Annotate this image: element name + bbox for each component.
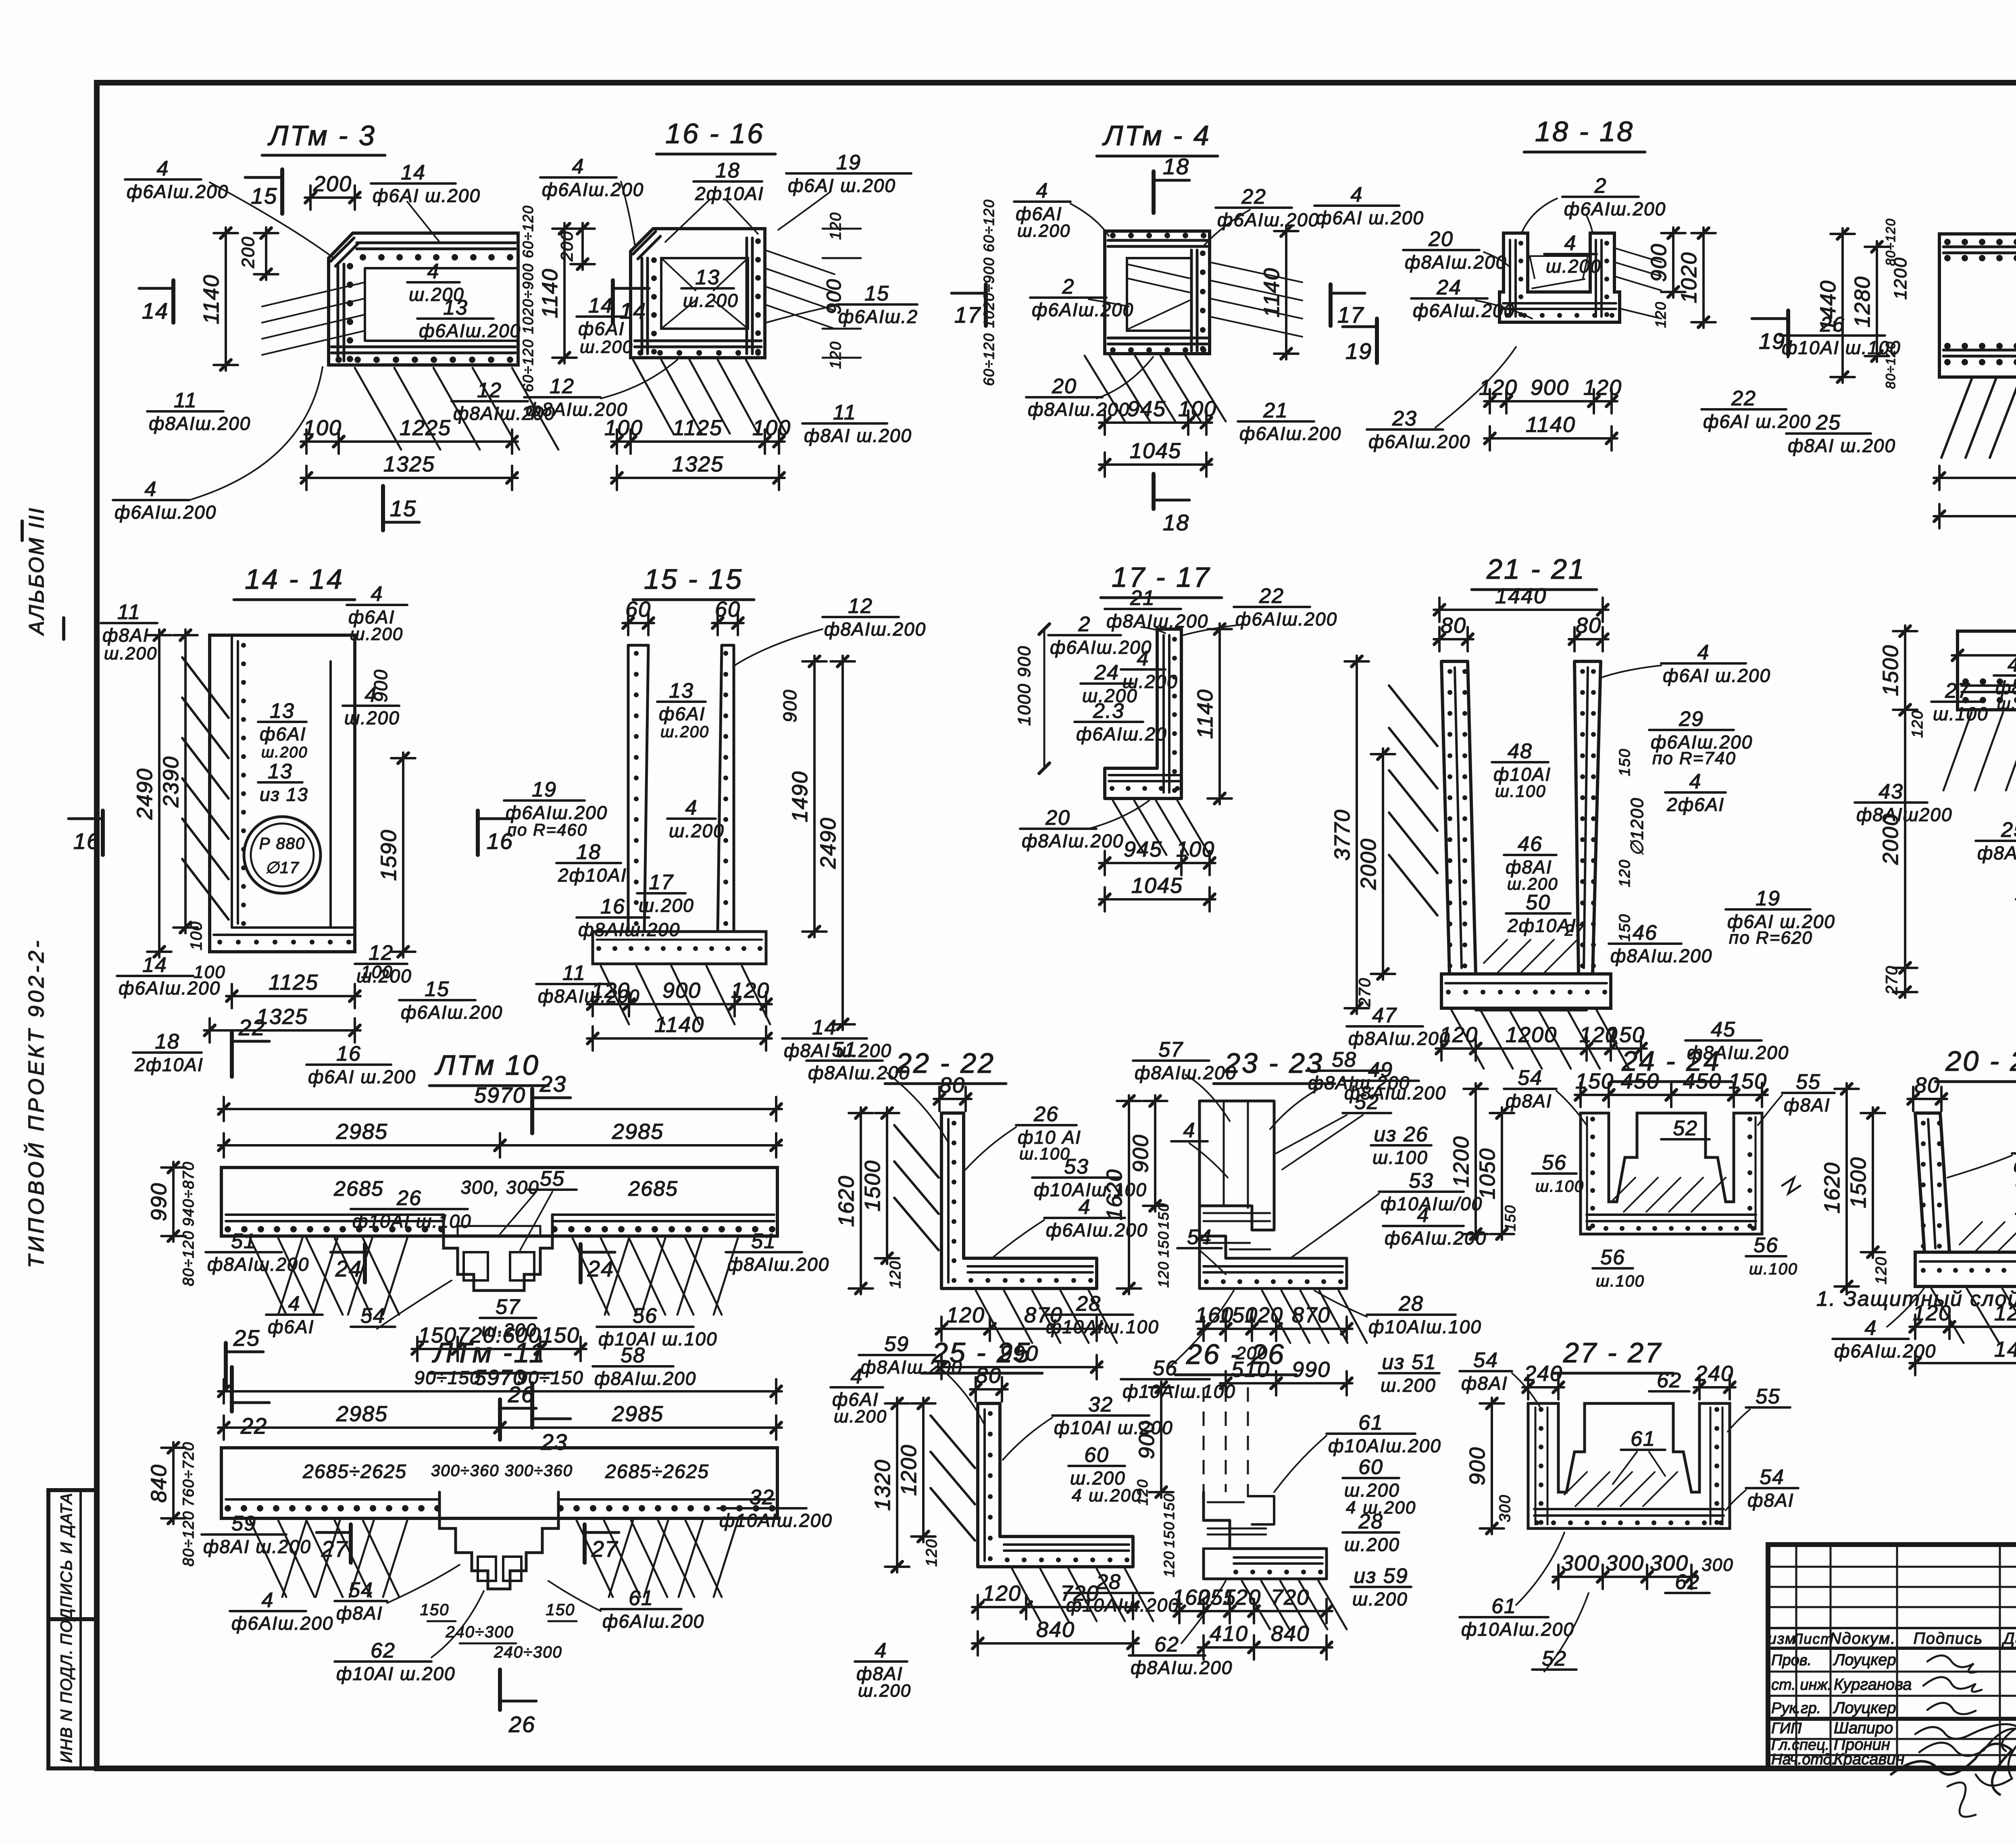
svg-text:900: 900: [1135, 1420, 1159, 1459]
section 16-16 leader 18 2ф10АI top: [694, 180, 762, 183]
section ЛТм-3 cut marker 15 top: [280, 169, 284, 214]
section ЛТм-4 cut marker 18 top: [1152, 171, 1156, 213]
section ЛТм-3 top wall rebar: [357, 242, 515, 244]
svg-text:4: 4: [572, 155, 585, 178]
section ЛТм-4 bottom rebar: [1108, 337, 1207, 340]
svg-text:18: 18: [715, 159, 740, 182]
section 26-26 leader из 59 ш.200 bottom right: [1351, 1586, 1411, 1588]
section 26-26 step rebar: [1208, 1501, 1244, 1503]
svg-text:57: 57: [1158, 1038, 1183, 1061]
svg-text:ш.200: ш.200: [683, 290, 739, 311]
section ЛТм-9 dim 5970: [1934, 515, 2016, 517]
section 23-23 hatch under slab: [1262, 1291, 1290, 1343]
svg-text:Р 880: Р 880: [259, 835, 306, 853]
svg-text:ф6АIш.200: ф6АIш.200: [1235, 609, 1337, 630]
svg-text:2ф10АI: 2ф10АI: [558, 865, 627, 886]
svg-text:16: 16: [600, 895, 625, 918]
svg-text:12: 12: [550, 375, 575, 398]
svg-text:12: 12: [369, 941, 394, 965]
section ЛТм 10 slab bottom rebar: [226, 1220, 444, 1222]
section 23-23 leader 53 ф10АIш.100 right: [1379, 1190, 1464, 1193]
svg-text:80: 80: [976, 1363, 1002, 1388]
section 14-14 leader 4 ф6АI top: [347, 604, 407, 606]
section 23-23 leader 4 ф6АIш.200 right: [1383, 1225, 1464, 1227]
svg-text:1590: 1590: [377, 829, 401, 881]
section 16-16 right pointer lines: [765, 250, 835, 274]
svg-text:ф8АI ш.200: ф8АI ш.200: [1788, 435, 1896, 456]
section 24-24 break mark right: [1782, 1178, 1800, 1194]
section 20-20 left wall tapered: [1915, 1113, 1949, 1252]
section ЛТм-11 hatch below right: [577, 1520, 613, 1597]
svg-text:1440: 1440: [1994, 1337, 2016, 1361]
svg-text:28: 28: [1076, 1292, 1101, 1316]
section 17-17 leader 2 ф6АIш.200 left: [1048, 634, 1121, 636]
svg-text:200: 200: [313, 172, 352, 196]
svg-text:13: 13: [669, 679, 694, 703]
section 24-24 leader 54 ф8АI top left: [1504, 1088, 1556, 1090]
svg-text:60: 60: [1084, 1443, 1109, 1467]
svg-text:1000 900: 1000 900: [1014, 645, 1034, 726]
svg-text:300, 300: 300, 300: [460, 1177, 539, 1198]
section 22-22 dims bottom: [936, 1328, 996, 1330]
svg-text:ф6АIш.200: ф6АIш.200: [1413, 300, 1515, 321]
svg-text:2390: 2390: [159, 756, 183, 808]
svg-text:ф8АIш.200: ф8АIш.200: [1610, 945, 1712, 966]
svg-text:1140: 1140: [1193, 689, 1217, 739]
svg-text:900: 900: [1129, 1134, 1153, 1173]
svg-text:16: 16: [73, 828, 100, 854]
svg-text:100: 100: [303, 416, 342, 440]
svg-text:900: 900: [662, 978, 701, 1003]
section 22-22 hatch left of wall: [894, 1125, 939, 1178]
section 23-23 upper wall block: [1200, 1101, 1274, 1230]
svg-text:15: 15: [251, 183, 277, 208]
section 25-25 dims bottom: [972, 1606, 1032, 1608]
svg-text:Шапиро: Шапиро: [1834, 1719, 1893, 1737]
section 18-18 concrete outline U channel: [1500, 233, 1620, 322]
section ЛТм-4 leader 21 ф6АIш.200 bottom right: [1238, 420, 1314, 423]
section 21-21 leader 49 bottom left: [1343, 1080, 1419, 1082]
svg-text:60÷120 1020÷900 60÷120: 60÷120 1020÷900 60÷120: [520, 205, 536, 392]
svg-text:16: 16: [336, 1042, 361, 1065]
svg-text:22: 22: [1731, 387, 1756, 410]
svg-text:52: 52: [1354, 1090, 1379, 1114]
section 14-14 leader 4 ш.200 right: [343, 705, 399, 707]
title block left grid columns: [1768, 1566, 2016, 1568]
svg-text:ш.100: ш.100: [1019, 1144, 1070, 1163]
section 14-14 leader 18 2ф10АI bottom: [133, 1051, 202, 1054]
svg-text:80: 80: [1441, 613, 1466, 638]
svg-text:900: 900: [1465, 1447, 1489, 1485]
section 21-21 bottom hatch below slab: [1452, 1010, 1484, 1069]
svg-text:ш.200: ш.200: [350, 624, 403, 644]
svg-text:26: 26: [1820, 313, 1845, 336]
section 22-22 leader 51 ф8АIш.200 top left: [806, 1059, 883, 1062]
svg-text:54: 54: [1518, 1066, 1543, 1090]
svg-text:840: 840: [1036, 1618, 1075, 1642]
section ЛТм-3 dim 1325 bottom: [301, 477, 518, 479]
svg-text:ф6АI ш.200: ф6АI ш.200: [1316, 207, 1424, 228]
svg-text:43: 43: [1879, 780, 1904, 803]
svg-text:870: 870: [1292, 1303, 1331, 1327]
svg-text:22: 22: [238, 1015, 265, 1040]
svg-text:24: 24: [1094, 661, 1119, 684]
section 15-15 left wall: [628, 645, 648, 932]
section 20-20 leader 4 ф6АIш.200 bottom left: [1833, 1338, 1909, 1340]
svg-text:90÷150: 90÷150: [414, 1367, 481, 1388]
svg-text:ф8АIш.200: ф8АIш.200: [149, 413, 251, 434]
svg-text:410: 410: [1210, 1622, 1248, 1646]
svg-text:29: 29: [1679, 707, 1704, 731]
section 20-20 leader 26 ф10АI ш.100 center: [2012, 1152, 2016, 1155]
section 19-19 top slab outline: [1958, 631, 2016, 936]
section ЛТм-3 bottom wall rebar: [331, 346, 515, 348]
svg-text:60: 60: [625, 597, 651, 621]
section 15-15 dims bottom: [587, 1003, 635, 1005]
section 24-24 bottom rebar: [1587, 1213, 1756, 1216]
svg-text:18 - 18: 18 - 18: [1535, 116, 1634, 147]
section 15-15 hatch bottom: [601, 966, 629, 1024]
svg-text:ЛТм - 3: ЛТм - 3: [267, 120, 376, 151]
svg-text:150: 150: [420, 1601, 450, 1619]
section 22-22 leader 4 ф6АI bottom left: [831, 1386, 883, 1389]
svg-text:2685÷2625: 2685÷2625: [302, 1461, 407, 1482]
svg-text:120: 120: [1873, 1256, 1890, 1284]
section 25-25 hatch left of wall: [931, 1416, 975, 1468]
svg-text:120: 120: [1616, 859, 1633, 887]
svg-text:4: 4: [875, 1639, 887, 1662]
svg-text:Курганова: Курганова: [1834, 1676, 1912, 1693]
section 21-21 dims bottom: [1436, 1047, 1481, 1050]
svg-text:150: 150: [1616, 748, 1633, 776]
section 17-17 leader 24 ш.200 left: [1081, 682, 1133, 685]
section 24-24 wall rebar dots: [1590, 1117, 1595, 1122]
section 16-16 leader 15 right: [837, 303, 917, 306]
svg-text:4: 4: [262, 1589, 274, 1612]
svg-text:56: 56: [1600, 1246, 1625, 1269]
section ЛТм-3 dim 200 small top left: [265, 227, 267, 280]
svg-text:∅1200: ∅1200: [1627, 797, 1647, 856]
svg-text:ш.200: ш.200: [1123, 671, 1178, 692]
svg-text:4: 4: [1564, 231, 1577, 255]
section ЛТм-3 cut marker 14 left: [171, 280, 175, 323]
section ЛТм-11 cut marker 26 bottom: [498, 1670, 502, 1710]
svg-text:870: 870: [1024, 1303, 1063, 1327]
svg-text:120: 120: [827, 212, 844, 240]
svg-text:ш.200: ш.200: [344, 707, 400, 728]
section 15-15 leader 17 ш.200: [637, 892, 685, 894]
svg-text:120: 120: [983, 1581, 1021, 1605]
section 14-14 pipe circle: [244, 817, 321, 893]
svg-text:120: 120: [731, 978, 770, 1003]
svg-text:61: 61: [629, 1587, 654, 1610]
section ЛТм-4 leader 4 ф6АIш.200 far right: [1314, 204, 1399, 207]
svg-text:АЛЬБОМ III: АЛЬБОМ III: [25, 507, 48, 636]
svg-text:ф8АIш.200: ф8АIш.200: [1131, 1657, 1233, 1678]
section 16-16 concrete outline: [631, 229, 765, 358]
section ЛТм-3 leader 4 ф6АIш.200 bottom left: [113, 499, 189, 501]
svg-text:ф6АI ш.200: ф6АI ш.200: [1663, 665, 1771, 686]
svg-text:3770: 3770: [1330, 809, 1354, 861]
svg-text:из 51: из 51: [1382, 1351, 1436, 1374]
section 22-22 leader 4 ф6АIш.200 right: [1044, 1217, 1125, 1219]
svg-text:15: 15: [425, 978, 450, 1001]
section ЛТм-3 dim 1140 left: [225, 227, 227, 371]
svg-text:2ф10АI: 2ф10АI: [695, 183, 764, 204]
section ЛТм 10 hatch below right: [573, 1238, 609, 1315]
section 14-14 leader 15 ф6АIш.200 right: [399, 999, 475, 1001]
section ЛТм-3 cut marker 15 bottom: [381, 486, 385, 530]
section 15-15 leader 14 ф8АIш.200 bottom right: [782, 1037, 867, 1040]
svg-text:300: 300: [1702, 1555, 1733, 1575]
svg-text:900: 900: [1531, 375, 1569, 400]
section ЛТм-11 leader 32 ф10АIш.200: [718, 1507, 806, 1509]
svg-text:14: 14: [142, 298, 169, 323]
section 25-25 leader 28 ф10АIш.200 bottom right: [1064, 1592, 1153, 1594]
svg-text:59: 59: [884, 1332, 909, 1356]
svg-text:25: 25: [2001, 818, 2016, 842]
section ЛТм-3 cavity pointer lines: [262, 282, 365, 306]
section 27-27 leader 61 ф10АIш.200 bottom left: [1460, 1616, 1548, 1618]
svg-text:ф6АIш.2: ф6АIш.2: [838, 306, 918, 327]
svg-text:ф6АIш.200: ф6АIш.200: [231, 1613, 333, 1634]
section ЛТм-11 cut marker 25 top left: [224, 1343, 228, 1387]
svg-text:120: 120: [1652, 301, 1669, 328]
svg-text:из 26: из 26: [1374, 1123, 1428, 1146]
svg-text:1500: 1500: [860, 1160, 885, 1211]
section 18-18 left wall rebar: [1509, 240, 1511, 317]
svg-text:24: 24: [1436, 276, 1462, 299]
svg-text:27: 27: [1945, 679, 1970, 703]
svg-text:20: 20: [1052, 375, 1077, 398]
svg-text:ф6АI: ф6АI: [578, 318, 625, 339]
svg-text:25: 25: [233, 1325, 260, 1351]
section 15-15 dim 60 60 top: [623, 622, 654, 624]
svg-text:100: 100: [194, 962, 225, 982]
section ЛТм 10 dim left rotated 990: [172, 1162, 175, 1242]
section 15-15 leader 11 ф8АIш.200 bottom left: [536, 983, 612, 985]
svg-text:ф10АI ш.100: ф10АI ш.100: [598, 1328, 718, 1349]
svg-text:58: 58: [621, 1344, 646, 1367]
svg-text:4: 4: [1079, 1195, 1091, 1219]
section ЛТм-4 cut marker 17 right: [1329, 284, 1333, 326]
svg-text:4: 4: [1137, 647, 1150, 670]
svg-text:21: 21: [1130, 586, 1155, 610]
svg-text:51: 51: [751, 1230, 776, 1253]
svg-text:27: 27: [321, 1536, 348, 1562]
svg-text:15 - 15: 15 - 15: [644, 563, 743, 595]
section 25-25 leader 4 ф8АI ш.200 bottom left: [855, 1660, 907, 1663]
svg-text:22: 22: [1241, 185, 1266, 208]
section 15-15 leader 4 ш.200: [667, 817, 716, 820]
svg-text:14 - 14: 14 - 14: [245, 563, 344, 595]
section 27-27 inner hatch: [1564, 1472, 1587, 1495]
svg-text:54: 54: [1187, 1226, 1212, 1249]
section 22-22 dim left rotated 1620 1500 120: [860, 1107, 862, 1294]
svg-text:ф10АIш.200: ф10АIш.200: [1461, 1619, 1574, 1640]
svg-text:Красавин: Красавин: [1834, 1750, 1904, 1768]
section ЛТм 10 dim 2985 2985: [218, 1144, 506, 1147]
svg-text:4: 4: [1865, 1316, 1877, 1340]
section 18-18 leader 23 ф6АIш.200 bottom left: [1367, 428, 1443, 431]
section 26-26 leader 62 ф8АIш.200 bottom left: [1129, 1654, 1205, 1657]
svg-text:ф10АIш/00: ф10АIш/00: [1381, 1193, 1483, 1214]
section 26-26 leader 61 ф10АIш.200 right: [1327, 1432, 1415, 1435]
section 14-14 left wall dots: [241, 643, 246, 648]
svg-text:100: 100: [187, 921, 205, 951]
svg-text:13: 13: [270, 699, 295, 723]
svg-text:ф6АIш.200: ф6АIш.200: [115, 502, 217, 523]
svg-text:1280: 1280: [1850, 276, 1874, 327]
svg-text:из 59: из 59: [1354, 1564, 1408, 1588]
section ЛТм-4 concrete outline: [1105, 231, 1210, 354]
svg-text:ш.200: ш.200: [1352, 1589, 1408, 1609]
section ЛТм 10 leader 26 ф10АIш.100: [351, 1208, 468, 1210]
section ЛТм-9 hatch below left: [1941, 379, 1972, 458]
svg-text:56: 56: [1153, 1357, 1178, 1380]
svg-text:ф8АI ш.200: ф8АI ш.200: [203, 1536, 311, 1557]
svg-text:14: 14: [142, 953, 167, 977]
svg-text:1200: 1200: [897, 1444, 921, 1496]
svg-text:120: 120: [923, 1539, 940, 1566]
svg-text:ф8АI: ф8АI: [336, 1603, 383, 1624]
section ЛТм-11 cut marker 27 right: [583, 1524, 587, 1563]
svg-text:ш.200: ш.200: [834, 1407, 887, 1426]
svg-text:990: 990: [1292, 1357, 1331, 1382]
section ЛТм-4 top rebar: [1108, 239, 1207, 242]
svg-text:150: 150: [1161, 1521, 1177, 1548]
section 17-17 hatch below: [1113, 801, 1145, 855]
section 14-14 inner cavity lines: [231, 635, 233, 928]
svg-text:55: 55: [1796, 1070, 1821, 1094]
svg-text:15: 15: [864, 282, 889, 305]
svg-text:Нач.отд.: Нач.отд.: [1771, 1751, 1836, 1768]
svg-text:28: 28: [1096, 1570, 1121, 1594]
section 27-27 U channel outline: [1528, 1403, 1730, 1528]
section 16-16 hatch below: [633, 360, 673, 434]
svg-text:45: 45: [1711, 1018, 1736, 1041]
svg-text:60: 60: [1358, 1455, 1383, 1479]
section 19-19 hatch under slab left: [1943, 712, 1972, 790]
svg-text:54: 54: [1473, 1349, 1498, 1372]
section 20-20 inner hatch: [1960, 1222, 1982, 1245]
svg-text:150: 150: [1606, 1023, 1645, 1047]
svg-text:12: 12: [848, 594, 873, 618]
section 14-14 leader 14 ф6АIш.200 bottom left: [117, 975, 193, 977]
svg-text:23: 23: [541, 1429, 568, 1455]
section 15-15 dim right rotated 900 1490 2490: [813, 656, 816, 937]
svg-text:4: 4: [1072, 1486, 1082, 1505]
svg-text:ЛТм - 4: ЛТм - 4: [1102, 120, 1211, 151]
section 16-16 wall rebar lines: [641, 258, 644, 354]
svg-text:46: 46: [1518, 832, 1543, 856]
section 21-21 leader 50 2ф10АI: [1506, 912, 1570, 915]
section 25-25 slab rebar: [1004, 1543, 1129, 1546]
svg-text:4: 4: [1351, 183, 1363, 206]
svg-text:53: 53: [1409, 1169, 1434, 1193]
svg-text:945: 945: [1124, 837, 1162, 861]
svg-text:940÷870: 940÷870: [180, 1161, 197, 1226]
svg-text:1500: 1500: [1846, 1157, 1870, 1208]
section 14-14 leader 11 ф8АI ш.200 top left: [101, 622, 157, 624]
section 14-14 dim 2490 2390 left rotated: [158, 630, 160, 957]
svg-text:120: 120: [887, 1260, 904, 1288]
svg-text:ф8АI ш.200: ф8АI ш.200: [804, 425, 912, 446]
svg-text:ф6АI ш.200: ф6АI ш.200: [308, 1066, 416, 1087]
svg-text:58: 58: [1332, 1048, 1357, 1072]
section 23-23 step slab outline: [1200, 1206, 1347, 1288]
section 24-24 leader 56 ш.100 left: [1532, 1172, 1577, 1175]
section 18-18 right pointer lines: [1614, 248, 1661, 262]
svg-text:62: 62: [1154, 1633, 1179, 1656]
svg-text:ф8АIш.200: ф8АIш.200: [1028, 399, 1130, 420]
svg-text:26: 26: [396, 1186, 422, 1210]
section 27-27 bottom rebar: [1534, 1508, 1724, 1510]
section 21-21 leader 4 ф6АIш.200 right top: [1661, 662, 1746, 665]
svg-text:18: 18: [1163, 154, 1189, 179]
svg-text:21 - 21: 21 - 21: [1486, 553, 1586, 585]
svg-text:150: 150: [1155, 1231, 1172, 1257]
section 27-27 dims top 240 240: [1522, 1386, 1564, 1389]
section 16-16 leader 4 ф6АIш.200 top left: [540, 176, 616, 179]
section 17-17 dim 1140 right part of drawing 3770: [1218, 623, 1221, 804]
section 21-21 leader 45 ф8АIш.200 bottom: [1685, 1039, 1762, 1042]
svg-text:120: 120: [1583, 375, 1622, 400]
section 14-14 leader 12 ш.200 right: [355, 963, 407, 965]
svg-text:ф8АIш.200: ф8АIш.200: [526, 399, 628, 420]
section ЛТм-3 leader 11 ф8АIш.200 left bottom: [147, 410, 223, 413]
svg-text:1225: 1225: [400, 416, 451, 440]
section 26-26 dims bottom 160 255 120 720: [1174, 1610, 1209, 1612]
section ЛТм-4 cut marker 17 left: [984, 284, 988, 326]
section ЛТм-11 leader 4 ф6АIш.200 bottom: [230, 1610, 306, 1612]
section ЛТм-4 right wall rebar: [1190, 250, 1193, 351]
svg-text:56: 56: [1754, 1234, 1779, 1257]
svg-text:840: 840: [147, 1464, 171, 1503]
section 19-19 slab rebar left: [1962, 684, 2016, 687]
section ЛТм 10 cut marker 22 top: [530, 1089, 534, 1133]
section 25-25 L-wall outline: [978, 1403, 1133, 1567]
svg-text:2985: 2985: [612, 1120, 664, 1144]
section ЛТм-4 cut marker 18 bottom: [1152, 474, 1156, 509]
section 26-26 upper wall dashed: [1204, 1387, 1248, 1496]
section ЛТм-11 leader 62 ф10АIш.200 bottom: [335, 1660, 431, 1663]
section 23-23 leader 56 ф10АIш.100 bottom left: [1121, 1378, 1210, 1380]
svg-text:300: 300: [1606, 1551, 1644, 1575]
svg-text:80: 80: [1914, 1073, 1940, 1097]
section ЛТм-3 leader 12 ф8АIш.200 right bottom: [452, 400, 528, 402]
svg-text:900: 900: [370, 669, 391, 703]
svg-text:150: 150: [1155, 1203, 1172, 1229]
section 19-19 leader 25 ф8АIш.200 left: [1976, 840, 2016, 842]
section 18-18 inner perspective lines: [1530, 255, 1588, 257]
section ЛТм-4 dims bottom: [1099, 421, 1194, 424]
svg-text:270: 270: [1883, 965, 1901, 995]
svg-text:ф8АIш200: ф8АIш200: [1856, 804, 1952, 825]
svg-text:Подпись: Подпись: [1914, 1630, 1983, 1647]
svg-text:ф6АI: ф6АI: [260, 723, 306, 744]
svg-text:5970: 5970: [474, 1083, 526, 1107]
svg-text:46: 46: [1633, 921, 1658, 944]
section 25-25 hatch under slab: [1012, 1569, 1040, 1621]
svg-text:ш.200: ш.200: [1017, 221, 1070, 241]
section 24-24 inner hatch: [1613, 1178, 1635, 1200]
svg-text:56: 56: [1542, 1151, 1567, 1174]
svg-text:1140: 1140: [1526, 413, 1576, 437]
svg-text:ф6АIш.200: ф6АIш.200: [1368, 431, 1470, 452]
svg-text:240: 240: [1695, 1361, 1734, 1386]
svg-text:ш.200: ш.200: [669, 820, 725, 841]
